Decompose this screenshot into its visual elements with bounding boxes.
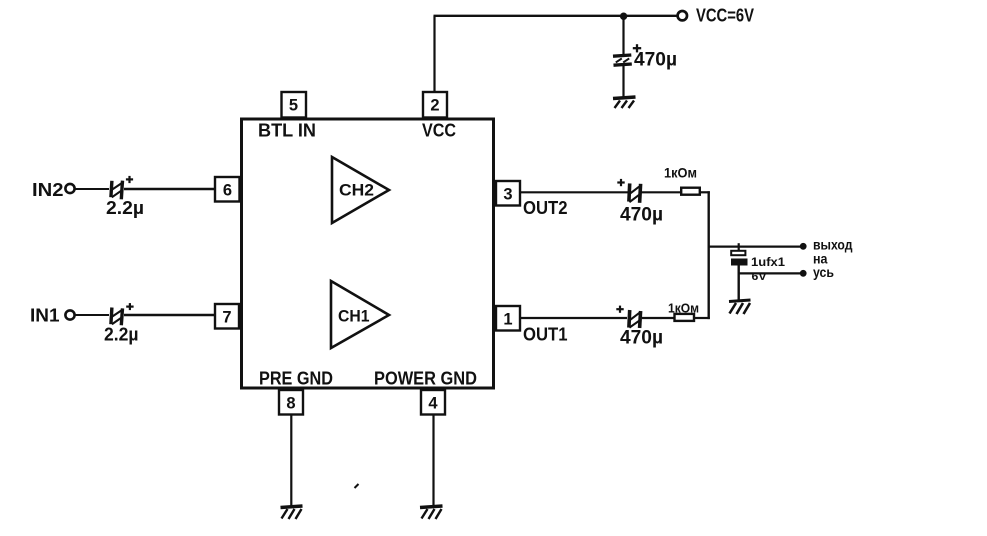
capacitor C5 470u (OUT1) (616, 306, 663, 349)
pin 2 box (423, 92, 447, 118)
capacitor C6 1uf stub (738, 243, 740, 251)
capacitor C4 470u (OUT2) (617, 179, 663, 226)
svg-text:4: 4 (428, 395, 438, 413)
resistor R2 1kOm (668, 301, 699, 321)
wire output bus vertical (708, 191, 710, 319)
wire junction to capacitor C3 (622, 16, 624, 56)
wire pin 3 to capacitor C4 (520, 191, 628, 193)
capacitor C2 2.2u (IN1) (104, 303, 139, 344)
resistor R1 1kOm (664, 166, 700, 195)
svg-text:1ufx1: 1ufx1 (751, 255, 785, 269)
svg-text:POWER GND: POWER GND (374, 369, 477, 389)
terminal dot vykhod (800, 243, 807, 250)
amplifier CH2 triangle (332, 157, 389, 223)
wire capacitor C2 to pin 7 (124, 314, 216, 316)
label vykhod na us (813, 237, 853, 281)
wire capacitor C6 to ground (738, 266, 740, 302)
svg-text:470µ: 470µ (620, 205, 663, 226)
svg-text:CH2: CH2 (339, 181, 374, 200)
wire IN1 terminal to capacitor (75, 314, 109, 316)
svg-text:1кОм: 1кОм (668, 301, 699, 316)
wire bus tap to output terminal (709, 246, 803, 248)
capacitor C6 1ufx1 plates (731, 251, 785, 283)
wire capacitor C3 to ground (622, 66, 624, 98)
svg-text:2: 2 (430, 97, 439, 115)
svg-text:PRE GND: PRE GND (259, 369, 333, 389)
terminal IN1 open circle (65, 310, 74, 319)
terminal VCC open circle (678, 11, 687, 20)
svg-text:OUT1: OUT1 (523, 324, 568, 345)
pin 8 box (279, 390, 303, 415)
wire capacitor C4 to resistor R1 (642, 191, 682, 193)
wire pin 1 to capacitor C5 (520, 317, 627, 319)
pin 3 box (496, 181, 520, 206)
terminal IN2 open circle (65, 184, 74, 193)
ground (output cap) (729, 300, 751, 314)
wire VCC rail horizontal (434, 15, 678, 17)
svg-text:VCC: VCC (422, 121, 456, 141)
svg-text:IN1: IN1 (30, 306, 60, 326)
svg-text:470µ: 470µ (634, 50, 677, 71)
op-amp IC U1 body (242, 119, 494, 388)
ground (pin 8 PRE GND) (281, 506, 303, 519)
capacitor C3 470u (VCC) (613, 44, 677, 70)
terminal dot us (800, 270, 807, 277)
svg-text:CH1: CH1 (338, 307, 370, 326)
svg-text:2.2µ: 2.2µ (106, 198, 144, 218)
speck artifact (355, 484, 359, 488)
junction VCC rail (620, 13, 627, 20)
svg-text:470µ: 470µ (620, 328, 663, 349)
amplifier CH1 triangle (331, 281, 389, 348)
pin 1 box (496, 306, 520, 331)
svg-text:2.2µ: 2.2µ (104, 325, 139, 345)
pin 5 box (282, 92, 307, 118)
ground (VCC decoupling) (613, 97, 636, 108)
pin 6 box (215, 177, 240, 202)
svg-text:VCC=6V: VCC=6V (696, 6, 754, 26)
svg-text:усь: усь (813, 264, 834, 280)
wire capacitor C5 to resistor R2 (642, 317, 674, 319)
svg-text:6: 6 (223, 182, 232, 200)
svg-text:8: 8 (286, 395, 295, 413)
svg-text:OUT2: OUT2 (523, 197, 568, 218)
capacitor C1 2.2u (IN2) (106, 176, 144, 218)
svg-text:3: 3 (503, 186, 512, 204)
pin 7 box (215, 304, 239, 329)
wire pin 4 to ground (432, 414, 434, 506)
ground (pin 4 POWER GND) (420, 506, 443, 519)
svg-text:IN2: IN2 (32, 180, 64, 200)
wire IN2 terminal to capacitor (75, 188, 109, 190)
wire capacitor C1 to pin 6 (124, 188, 216, 190)
wire resistor R2 to bus (694, 317, 710, 319)
wire resistor R1 to bus (700, 191, 710, 193)
wire to terminal us (739, 272, 803, 274)
svg-text:BTL IN: BTL IN (258, 120, 316, 141)
svg-text:1кОм: 1кОм (664, 166, 697, 181)
svg-text:1: 1 (503, 311, 512, 329)
pin 4 box (421, 390, 445, 415)
wire pin 2 to VCC rail (433, 16, 435, 92)
svg-text:7: 7 (222, 309, 231, 327)
svg-text:5: 5 (289, 97, 298, 115)
wire pin 8 to ground (290, 414, 292, 506)
